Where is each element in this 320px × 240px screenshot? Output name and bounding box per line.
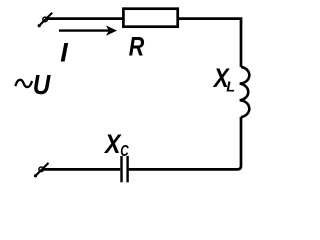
wire bottom-left (capacitor to terminal) [44,168,120,171]
label XL [212,63,235,95]
wire top-left (terminal to resistor) [47,17,124,20]
current arrow I [59,26,117,36]
sine symbol (AC) [15,80,32,87]
inductor XL (three arcs) [240,67,250,117]
wire right-lower (coil to bottom corner to capacitor) [129,117,241,169]
resistor R [123,9,177,27]
wire top-right (resistor to corner, down to coil) [178,19,241,67]
svg-text:R: R [129,31,145,61]
svg-text:L: L [226,79,235,95]
capacitor XC plates [122,156,128,182]
svg-text:I: I [60,38,68,68]
label XC [103,129,129,160]
svg-text:U: U [33,69,51,100]
terminal T2 (bottom-left clamp) [34,163,49,178]
svg-text:C: C [120,143,129,160]
terminal T1 (top-left clamp) [38,13,53,28]
